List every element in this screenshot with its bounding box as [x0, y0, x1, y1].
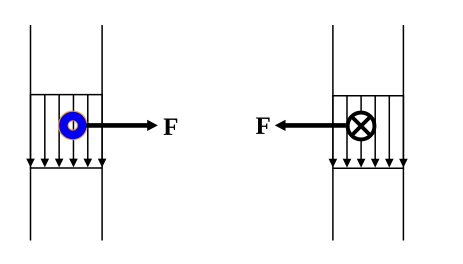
field line 2: [343, 96, 352, 168]
force arrow F (right): [86, 120, 157, 131]
field line 4: [371, 96, 380, 168]
top boundary line: [30, 94, 103, 96]
bottom boundary line: [332, 167, 404, 169]
field line 3: [55, 95, 64, 168]
wire right rail: [402, 25, 404, 241]
top boundary line: [332, 95, 404, 97]
field line 3: [357, 96, 366, 168]
field line 1: [26, 95, 35, 168]
force arrow F (left): [275, 120, 346, 131]
field line 4: [69, 95, 78, 168]
label F (right figure): [256, 118, 270, 134]
label F (left figure): [164, 119, 178, 135]
wire right rail: [101, 25, 103, 241]
field line 6: [98, 95, 107, 168]
field line 5: [83, 95, 92, 168]
field line 6: [399, 96, 408, 168]
field line 5: [385, 96, 394, 168]
bottom boundary line: [30, 167, 103, 169]
current into-page symbol (circle with X): [348, 113, 375, 140]
current out-of-page symbol (blue ring): [59, 111, 87, 139]
field line 2: [41, 95, 50, 168]
wire left rail: [30, 25, 32, 241]
wire left rail: [332, 25, 334, 241]
field line 1: [329, 96, 338, 168]
